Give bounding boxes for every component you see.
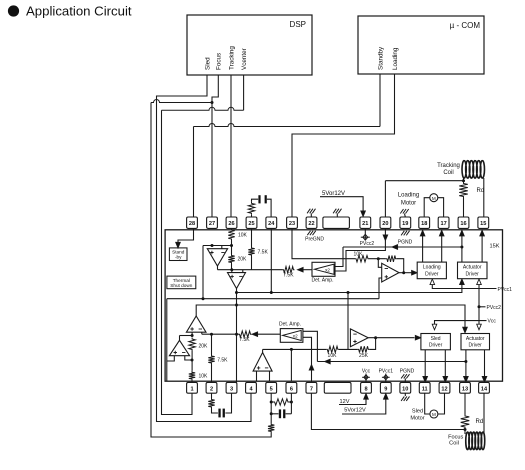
svg-text:7.5K: 7.5K: [239, 337, 250, 343]
svg-text:M: M: [432, 196, 436, 201]
svg-text:Coil: Coil: [443, 170, 453, 176]
svg-text:Actuator: Actuator: [466, 336, 485, 342]
svg-text:26: 26: [228, 221, 234, 227]
svg-text:5Vor12V: 5Vor12V: [322, 191, 345, 197]
svg-text:DSP: DSP: [290, 20, 306, 29]
svg-text:10K: 10K: [199, 374, 209, 380]
svg-text:Loading: Loading: [392, 47, 399, 70]
svg-text:Shut down: Shut down: [170, 283, 193, 288]
svg-text:PreGND: PreGND: [305, 237, 324, 243]
svg-text:PVcc2: PVcc2: [360, 241, 375, 247]
svg-text:-by: -by: [175, 255, 182, 260]
svg-text:Driver: Driver: [429, 343, 443, 349]
svg-text:25K: 25K: [359, 353, 369, 359]
svg-text:28: 28: [189, 221, 195, 227]
svg-text:Application Circuit: Application Circuit: [26, 4, 132, 19]
svg-text:13: 13: [462, 386, 468, 392]
svg-text:Rd: Rd: [476, 419, 484, 425]
svg-text:Det. Amp.: Det. Amp.: [312, 278, 334, 284]
svg-text:11: 11: [422, 386, 428, 392]
svg-text:Sled: Sled: [412, 409, 423, 415]
svg-text:Motor: Motor: [410, 416, 424, 422]
svg-text:10K: 10K: [354, 252, 364, 258]
svg-text:Det. Amp.: Det. Amp.: [279, 322, 301, 328]
svg-text:14: 14: [481, 386, 488, 392]
svg-text:27: 27: [209, 221, 215, 227]
svg-text:Sled: Sled: [204, 57, 211, 70]
svg-text:9: 9: [384, 386, 387, 392]
svg-text:18: 18: [421, 221, 427, 227]
svg-text:PVcc1: PVcc1: [498, 287, 513, 293]
svg-text:Standby: Standby: [377, 46, 384, 70]
svg-text:8: 8: [364, 386, 367, 392]
svg-text:5: 5: [270, 386, 273, 392]
svg-text:Loading: Loading: [423, 265, 441, 271]
svg-text:Vcc: Vcc: [488, 319, 497, 325]
svg-text:Rd: Rd: [477, 188, 485, 194]
svg-text:7.5K: 7.5K: [217, 357, 228, 363]
svg-text:20: 20: [382, 221, 388, 227]
svg-text:Driver: Driver: [469, 343, 483, 349]
svg-text:24: 24: [268, 221, 275, 227]
svg-text:PGND: PGND: [398, 240, 413, 246]
svg-text:6: 6: [290, 386, 293, 392]
svg-text:1: 1: [190, 386, 193, 392]
svg-text:Driver: Driver: [466, 271, 480, 277]
svg-text:5Vor12V: 5Vor12V: [344, 407, 366, 413]
svg-text:PGND: PGND: [400, 369, 415, 375]
svg-text:21: 21: [362, 221, 368, 227]
svg-text:3: 3: [230, 386, 233, 392]
svg-text:7.5K: 7.5K: [258, 249, 269, 255]
svg-text:x2: x2: [325, 267, 330, 272]
svg-text:22: 22: [308, 221, 314, 227]
svg-text:15K: 15K: [490, 243, 500, 249]
svg-text:Sled: Sled: [431, 336, 441, 342]
svg-text:Motor: Motor: [401, 200, 416, 206]
svg-text:Vcenter: Vcenter: [241, 48, 248, 70]
svg-text:PVcc2: PVcc2: [487, 305, 502, 311]
svg-text:Coil: Coil: [449, 441, 459, 447]
svg-text:15: 15: [480, 221, 486, 227]
svg-text:Driver: Driver: [425, 271, 439, 277]
svg-text:M: M: [432, 412, 436, 417]
svg-text:16: 16: [460, 221, 466, 227]
svg-text:10K: 10K: [328, 353, 338, 359]
svg-text:Loading: Loading: [398, 193, 419, 199]
svg-text:2: 2: [210, 386, 213, 392]
svg-text:10: 10: [402, 386, 408, 392]
svg-text:Focus: Focus: [216, 53, 223, 70]
svg-text:20K: 20K: [238, 257, 248, 263]
svg-text:17: 17: [440, 221, 446, 227]
svg-text:25: 25: [248, 221, 254, 227]
svg-text:19: 19: [402, 221, 408, 227]
svg-text:23: 23: [289, 221, 295, 227]
svg-text:7.5K: 7.5K: [283, 273, 294, 279]
svg-text:20K: 20K: [199, 343, 209, 349]
svg-text:Actuator: Actuator: [463, 265, 482, 271]
svg-text:µ - COM: µ - COM: [450, 21, 481, 30]
svg-text:10K: 10K: [238, 232, 248, 238]
svg-text:12: 12: [441, 386, 447, 392]
svg-text:Tracking: Tracking: [228, 46, 235, 70]
svg-text:Tracking: Tracking: [437, 163, 460, 169]
svg-text:7: 7: [310, 386, 313, 392]
svg-text:x2: x2: [293, 333, 298, 338]
